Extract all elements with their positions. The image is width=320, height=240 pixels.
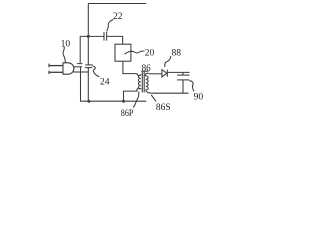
wire: right conductor lower segment to bottom rail [87, 68, 89, 102]
leader line for 86P [133, 92, 139, 108]
wire: branch horizontal to capacitor 22 [80, 35, 104, 37]
svg-text:20: 20 [145, 49, 155, 59]
wire: left conductor lower segment to bottom rail [80, 67, 82, 101]
capacitor C90 top stub [182, 72, 184, 75]
svg-text:86S: 86S [156, 103, 171, 113]
wire: capacitor 22 to corner [107, 36, 123, 44]
wire: secondary top to diode [149, 73, 162, 75]
svg-text:86P: 86P [121, 109, 134, 119]
capacitor C90 bottom stub [182, 80, 184, 93]
wire: primary bottom return [124, 91, 138, 101]
capacitor C90 top plate [177, 74, 189, 76]
wire: plug upper lead to connector [74, 66, 83, 68]
connector 24 upper-right bar [85, 64, 93, 66]
wire: plug lower lead to connector [73, 71, 88, 73]
svg-text:10: 10 [61, 39, 71, 49]
leader line for 90 [189, 81, 194, 92]
capacitor C90 bottom plate [177, 79, 189, 81]
box 20 (rectifier block) [115, 44, 131, 61]
leader line for 24 [93, 66, 100, 77]
transformer T86 core [142, 72, 144, 93]
capacitor C22 left plate [103, 32, 105, 41]
plug 10 body [63, 63, 74, 74]
wire: diode cathode to output [167, 71, 189, 73]
connector 24 left bar [77, 63, 82, 65]
transformer T86 primary winding [137, 74, 141, 92]
wire: box bottom to transformer primary top [123, 61, 137, 73]
svg-text:88: 88 [172, 48, 182, 58]
node junction dot at cap branch [87, 35, 90, 38]
diode D88 [162, 70, 167, 77]
svg-text:24: 24 [100, 77, 110, 87]
wire: top rail [88, 3, 146, 5]
svg-text:86: 86 [142, 63, 152, 73]
plug 10 lower prong tick [48, 71, 50, 75]
capacitor C22 right plate [106, 32, 108, 41]
wire: secondary bottom to output [152, 92, 189, 94]
leader line for 20 [125, 51, 145, 54]
label 86 underline [141, 70, 148, 72]
plug 10 upper prong tick [48, 64, 50, 68]
plug 10 upper prong [49, 65, 63, 67]
svg-text:22: 22 [113, 12, 123, 22]
leader line for 22 [107, 20, 114, 32]
plug 10 lower prong [49, 71, 63, 73]
transformer T86 secondary winding [145, 73, 152, 93]
svg-text:90: 90 [194, 92, 204, 102]
wire: bottom rail [80, 100, 146, 102]
wire: left conductor upper segment [79, 36, 81, 63]
leader line for 10 [63, 47, 65, 63]
wire: left riser from top rail down to connector upper bar [87, 4, 89, 65]
junction dot primary return on bottom rail [122, 100, 125, 103]
leader line for 86S [151, 95, 156, 102]
connector 24 lower-right bar [85, 67, 93, 69]
junction dot left conductor on bottom rail [87, 100, 90, 103]
leader line for 88 [165, 56, 171, 67]
